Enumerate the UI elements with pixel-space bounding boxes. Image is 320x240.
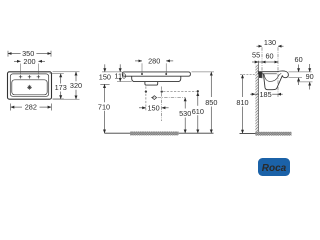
svg-text:60: 60 — [295, 55, 303, 64]
svg-text:60: 60 — [265, 51, 273, 60]
wall hatch band — [255, 65, 258, 134]
dashed line between fixing dots — [163, 91, 196, 93]
dim 280 — [135, 60, 173, 62]
dim 282 — [11, 106, 52, 108]
dim 850 ext line — [192, 71, 215, 73]
basin front slab — [122, 72, 190, 76]
faucet hole cross middle — [28, 75, 31, 78]
basin plan bowl — [12, 80, 47, 95]
dim 350 — [8, 53, 51, 55]
svg-text:850: 850 — [205, 98, 217, 107]
svg-text:150: 150 — [99, 72, 111, 81]
dim 90 — [309, 64, 311, 90]
floor line middle — [105, 132, 214, 134]
dim 60 right ext lines — [289, 72, 312, 78]
dash-dot vertical axis — [161, 87, 163, 122]
drain bump front — [145, 82, 158, 85]
basin plan outer rect — [8, 72, 52, 99]
wall face line — [257, 61, 259, 134]
faucet hole cross right — [37, 75, 40, 78]
svg-text:530: 530 — [179, 109, 191, 118]
dim 173 — [60, 74, 62, 99]
dim 130 — [257, 45, 284, 47]
rim bottom line side — [263, 73, 277, 75]
svg-text:320: 320 — [70, 81, 82, 90]
floor hatch right — [255, 132, 291, 136]
diamond marker — [152, 96, 157, 100]
svg-text:90: 90 — [306, 72, 314, 81]
svg-text:810: 810 — [236, 98, 248, 107]
dim 320 ext lines — [53, 72, 80, 99]
fixing hole dots front — [141, 73, 143, 75]
Roca logo — [258, 158, 290, 176]
dim 200 — [14, 60, 45, 62]
mounting bracket — [259, 72, 262, 78]
dim 200 ext lines — [21, 64, 39, 75]
dim 110 lower ext — [117, 81, 132, 83]
dim 185 — [250, 93, 283, 95]
svg-text:280: 280 — [148, 56, 160, 65]
svg-text:150: 150 — [148, 103, 160, 112]
basin front body — [132, 76, 181, 81]
fixing dot left — [145, 90, 147, 92]
drain cross plan — [27, 85, 32, 90]
dim 55 60 top — [252, 61, 278, 63]
basin side profile — [258, 71, 288, 90]
dim 60 right — [298, 65, 300, 86]
svg-text:Roca: Roca — [262, 163, 287, 174]
dim 710 — [104, 84, 106, 133]
basin plan rim inner — [10, 74, 48, 96]
svg-text:282: 282 — [25, 103, 37, 112]
fixing dot far right — [197, 90, 199, 92]
svg-text:610: 610 — [192, 107, 204, 116]
dim 320 — [75, 72, 77, 99]
svg-text:130: 130 — [264, 38, 276, 47]
dashed vertical left fixing — [145, 87, 147, 111]
svg-text:710: 710 — [98, 103, 110, 112]
dim 810 — [242, 75, 244, 134]
bowl inner line side — [264, 74, 281, 82]
dim 850 — [210, 72, 212, 133]
dash-dot horizontal drain axis — [151, 97, 185, 99]
svg-text:110: 110 — [114, 72, 126, 81]
svg-text:173: 173 — [55, 83, 67, 92]
dim 173 ext lines — [50, 74, 64, 99]
svg-text:200: 200 — [23, 57, 35, 66]
dim 280 ext lines — [142, 63, 166, 73]
fixing dot right — [161, 90, 163, 92]
dim 282 ticks — [11, 104, 52, 111]
dim 150 left lower tick — [100, 83, 109, 85]
faucet hole cross left — [19, 75, 22, 78]
dim 530 — [184, 98, 186, 134]
dim 810 ext line — [240, 74, 256, 76]
dim 150 bottom — [139, 107, 169, 109]
dash-dot vertical A — [261, 47, 263, 79]
svg-text:55: 55 — [252, 50, 260, 59]
dim 110 left — [119, 64, 121, 81]
dim 350 ticks — [8, 51, 51, 57]
floor hatch middle — [130, 132, 179, 136]
svg-text:185: 185 — [260, 90, 272, 99]
dim 610 — [197, 92, 199, 133]
rim level ext line left — [102, 71, 122, 73]
dim 90 ext line — [297, 81, 313, 83]
dim 150 left — [104, 64, 106, 72]
dash-dot vertical B — [277, 47, 279, 97]
floor line right — [240, 132, 292, 134]
